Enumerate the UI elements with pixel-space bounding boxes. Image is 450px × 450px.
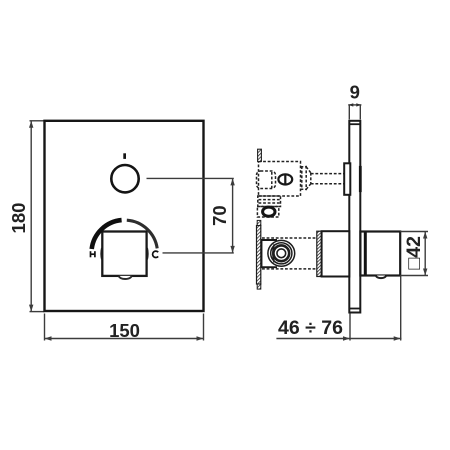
svg-text:70: 70 — [209, 205, 230, 226]
svg-text:150: 150 — [109, 320, 140, 341]
svg-text:9: 9 — [350, 81, 360, 102]
svg-text:□42: □42 — [403, 236, 425, 270]
svg-text:46 ÷ 76: 46 ÷ 76 — [278, 317, 343, 339]
svg-text:180: 180 — [8, 203, 29, 234]
